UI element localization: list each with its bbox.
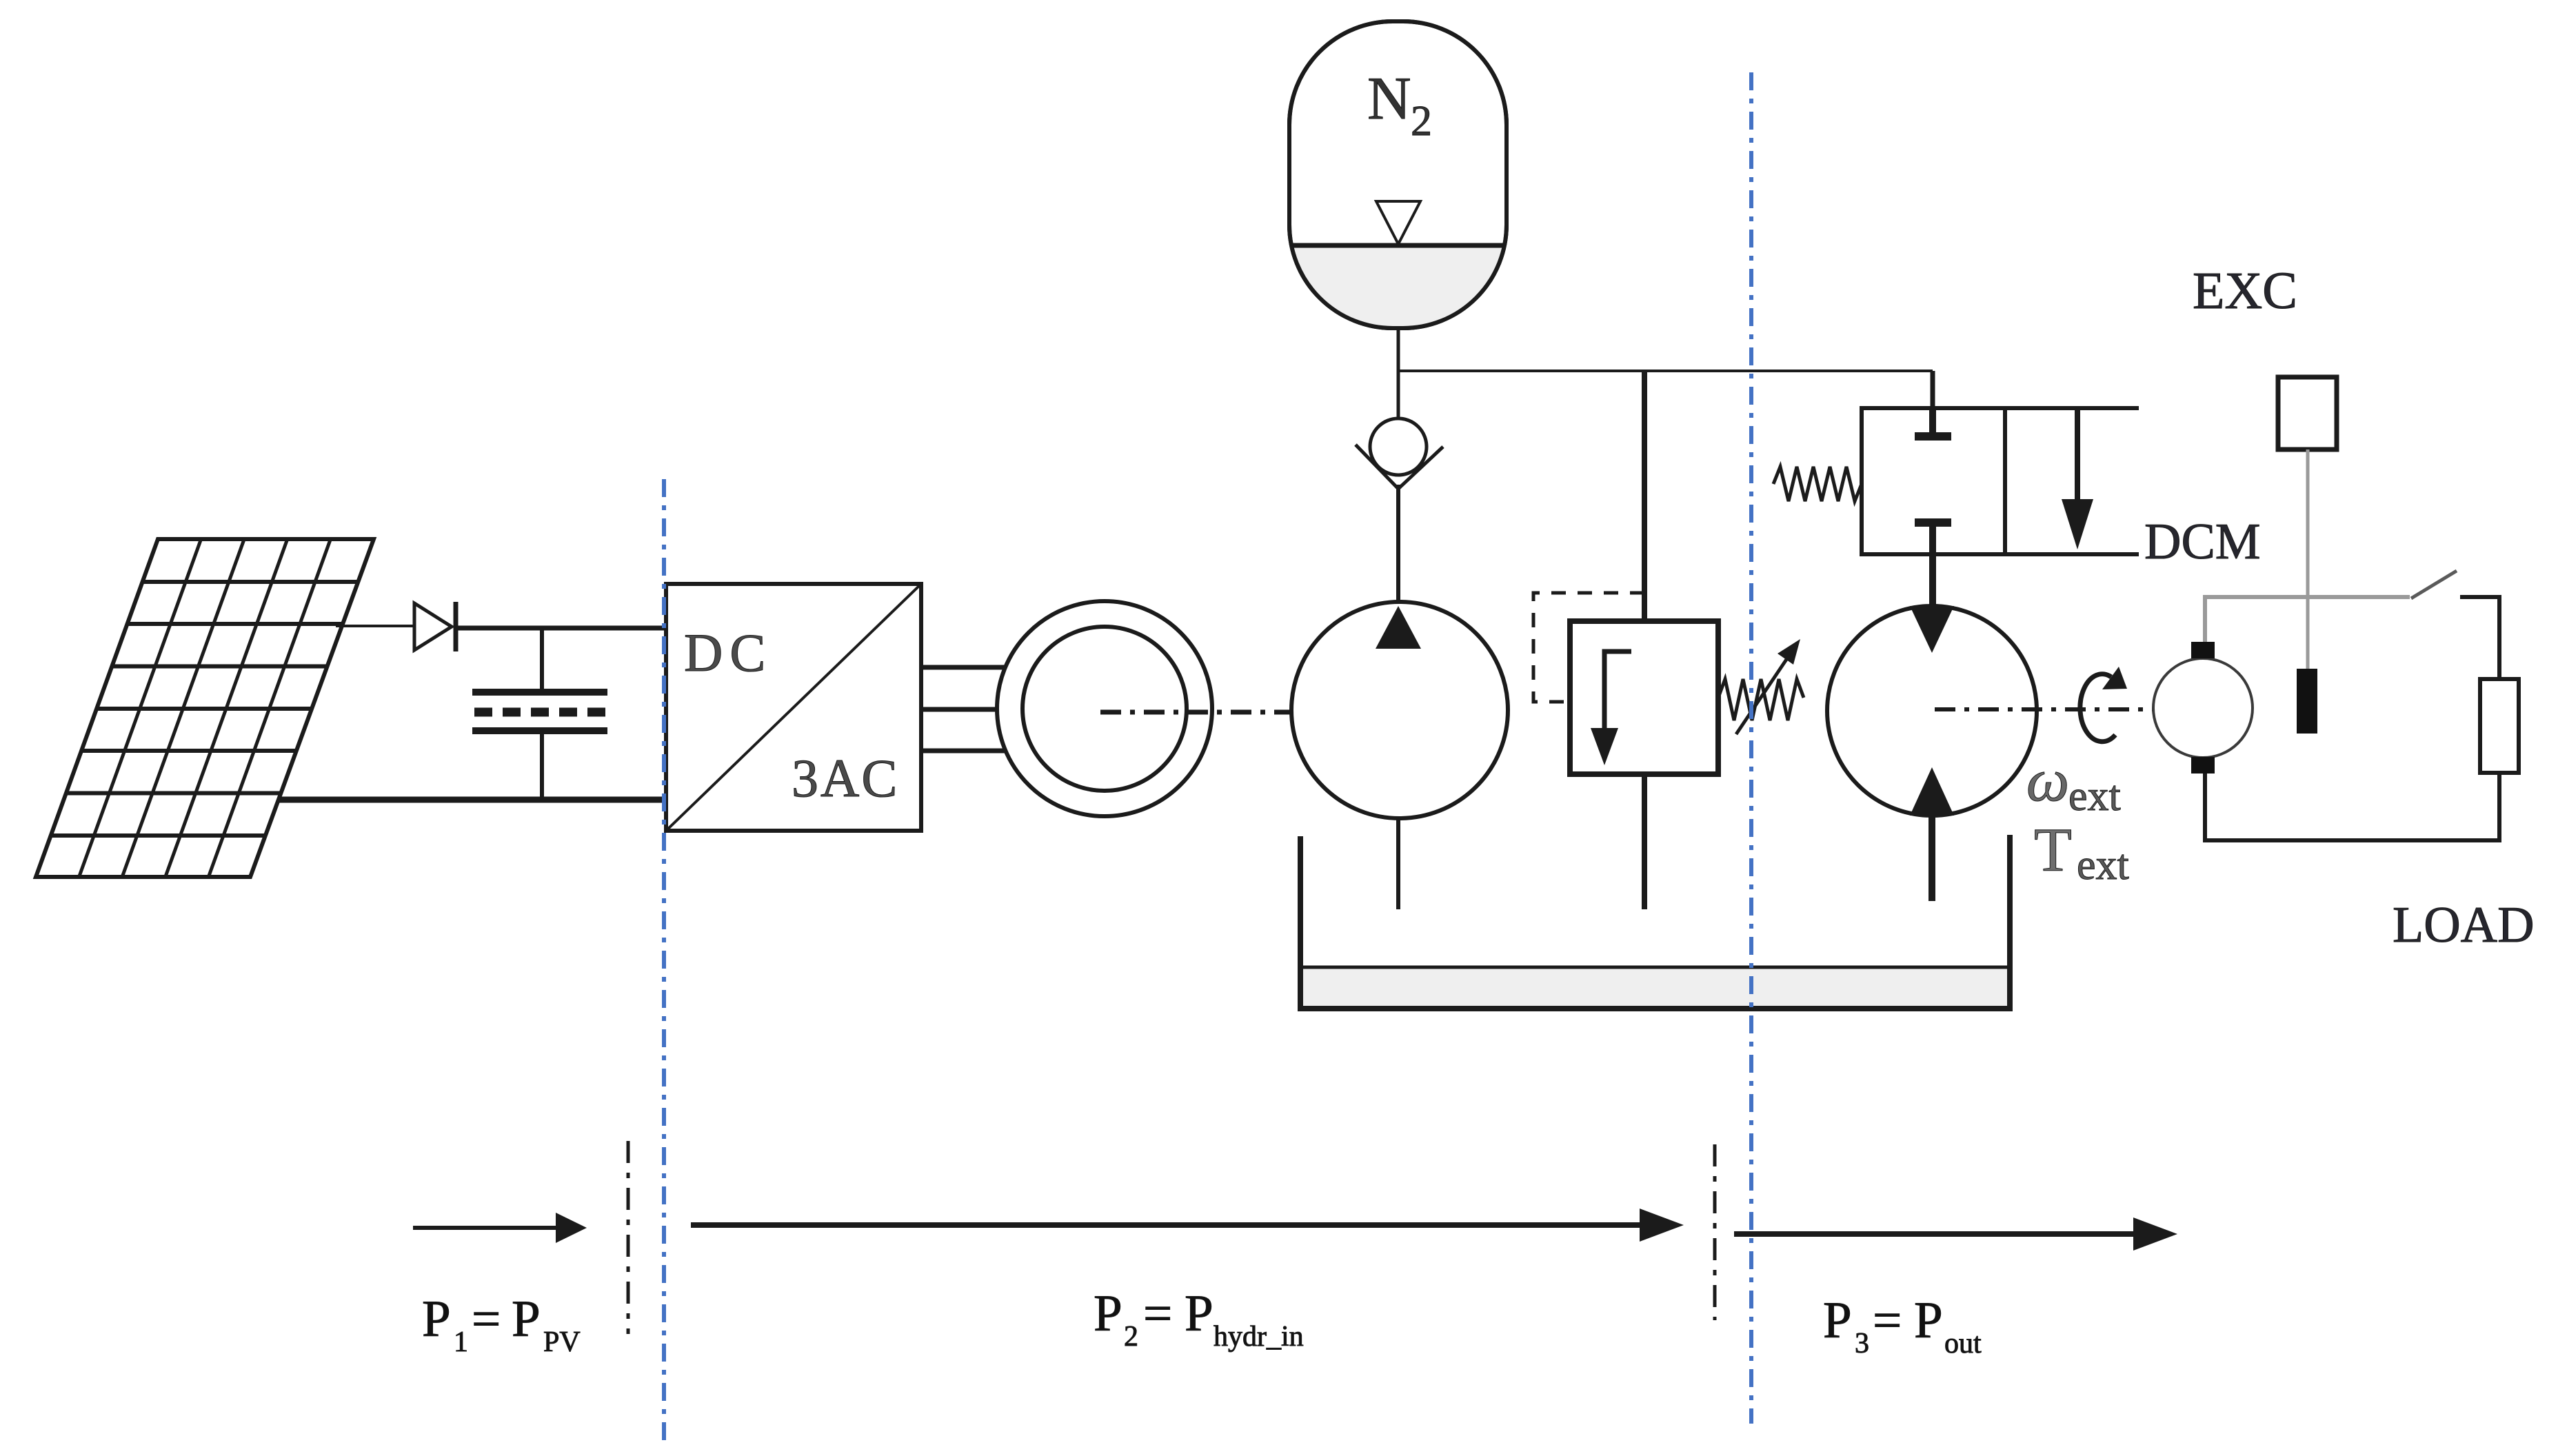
arrow P3 (1734, 1217, 2177, 1251)
relief valve RV1 (1570, 621, 1718, 774)
svg-text:=: = (1143, 1285, 1172, 1342)
hydraulic pump P1 (1291, 602, 1508, 818)
PV panel PV1 (36, 539, 374, 877)
svg-text:P: P (1094, 1285, 1122, 1342)
svg-text:=: = (472, 1291, 501, 1348)
arrow P2 (691, 1209, 1684, 1242)
relief valve spring (1718, 679, 1804, 720)
svg-text:P: P (512, 1291, 541, 1348)
DCM valve V1 (1862, 408, 2139, 606)
black dashdot separator 1 (627, 1141, 630, 1334)
pump suction line (1396, 818, 1400, 909)
svg-text:3AC: 3AC (792, 748, 899, 808)
svg-text:2: 2 (1411, 98, 1432, 145)
check valve CV1 (1356, 418, 1443, 489)
wire PV to diode (336, 625, 414, 627)
svg-text:P: P (1823, 1292, 1852, 1349)
inverter U1 DC/3AC (666, 584, 921, 831)
label P3=Pout (1823, 1292, 1982, 1359)
tank T1 (1300, 835, 2010, 1009)
svg-text:ω: ω (2026, 747, 2069, 814)
motor tank line (1928, 816, 1935, 901)
svg-text:hydr_in: hydr_in (1213, 1321, 1304, 1353)
relief valve supply line (1642, 371, 1647, 621)
svg-text:N: N (1367, 65, 1411, 132)
label P1=PPV (422, 1291, 581, 1358)
wire check valve to pump (1396, 485, 1400, 607)
blue boundary line 1 (662, 479, 666, 1443)
rotation arrow (2080, 667, 2127, 742)
three-phase wires (921, 667, 1006, 751)
svg-text:DC: DC (684, 623, 772, 682)
svg-text:P: P (1914, 1292, 1943, 1349)
shaft motor-pump (1100, 710, 1401, 715)
DCM valve supply corner (1931, 371, 1935, 408)
accumulator N2 (1289, 21, 1507, 328)
hydraulic motor M2 (1827, 606, 2037, 816)
svg-text:DCM: DCM (2144, 514, 2261, 570)
svg-text:PV: PV (543, 1326, 581, 1358)
svg-text:1: 1 (454, 1326, 468, 1358)
DCM machine G1 (2153, 642, 2253, 774)
svg-text:ext: ext (2077, 842, 2129, 889)
node junction accumulator line (1398, 370, 1933, 372)
relief valve adjust arrow (1736, 639, 1800, 734)
armature wire top gray (2205, 597, 2410, 642)
wire diode to inverter (458, 626, 665, 631)
label P2=Phydr_in (1094, 1285, 1304, 1353)
pilot line dashed (1533, 593, 1644, 702)
svg-text:=: = (1873, 1292, 1902, 1349)
svg-text:ext: ext (2068, 773, 2121, 820)
EXC wire gray (2306, 449, 2310, 672)
capacitor C1 (472, 628, 607, 800)
svg-text:P: P (1185, 1285, 1213, 1342)
shaft motor-generator (1935, 707, 2206, 711)
arrow P1 (413, 1213, 587, 1243)
wire accumulator down (1397, 328, 1400, 420)
svg-text:LOAD: LOAD (2393, 897, 2535, 953)
blue boundary line 2 (1749, 72, 1753, 1424)
electric motor M1 (997, 601, 1212, 816)
switch S1 (2411, 571, 2457, 598)
svg-text:3: 3 (1855, 1328, 1869, 1359)
EXC box (2278, 377, 2337, 449)
load resistor R1 (2480, 679, 2519, 773)
wire load bottom (2205, 773, 2499, 840)
svg-text:EXC: EXC (2193, 262, 2297, 320)
diode D1 (414, 602, 456, 651)
svg-text:T: T (2034, 816, 2072, 884)
svg-text:P: P (422, 1291, 451, 1348)
wire PV bottom to inverter (279, 797, 666, 803)
svg-text:out: out (1944, 1328, 1982, 1359)
wire switch to load (2460, 597, 2499, 679)
svg-text:2: 2 (1124, 1321, 1138, 1353)
EXC plunger bar (2297, 669, 2317, 734)
DCM valve spring (1773, 467, 1862, 501)
black dashdot separator 2 (1713, 1144, 1717, 1320)
relief valve tank line (1642, 774, 1647, 909)
